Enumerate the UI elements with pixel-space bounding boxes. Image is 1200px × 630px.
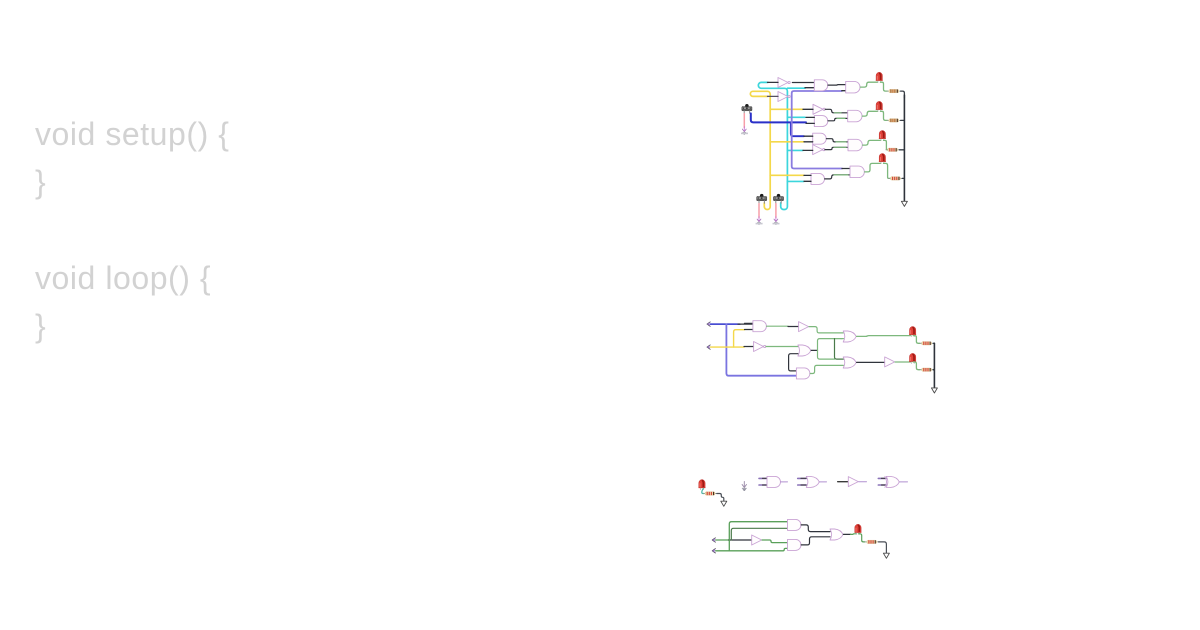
LED D8 bottom <box>854 524 861 534</box>
wire yellow branch to row4 AND upper input <box>770 174 804 176</box>
wire AND row3 input stubs <box>804 136 813 142</box>
pushbutton SW1 <box>742 104 752 113</box>
wire green NOT-B output to OR-D upper input <box>766 346 799 348</box>
AND gate A mid <box>753 321 767 332</box>
gnd arrow under SW2 <box>757 217 761 225</box>
wire AND row2 inputs stubs <box>806 117 814 123</box>
wire cyan branch to row1 AND lower input <box>787 87 805 89</box>
wire green BUF-D output to AND-T2 upper input <box>762 540 787 543</box>
resistor R5 mid <box>920 342 934 345</box>
wire R7 to ground <box>717 494 724 501</box>
wire AND-T1 output to OR-V upper input <box>801 525 830 532</box>
wire green BUF-C output to OR-F upper input <box>809 327 843 333</box>
code preview text <box>35 110 229 350</box>
OR gate D mid <box>798 345 811 356</box>
wire yellow branch up to AND-A lower input <box>734 330 745 347</box>
wire green IN3 to BUF-D input <box>716 539 730 541</box>
wire blue from button1 to row2 AND lower input <box>751 113 806 122</box>
LED D6 mid <box>909 353 916 363</box>
ground rail wire top block <box>903 95 905 201</box>
wire yellow branch to row3 AND lower input <box>770 141 804 143</box>
wire cyan branch to row2 AND top input <box>787 116 805 118</box>
wire AND-T2 output to OR-V lower input <box>801 537 830 545</box>
wire cyan branch to row3 NOT input <box>787 149 803 151</box>
ground symbol bottom block <box>883 553 889 558</box>
wire R3 to ground rail <box>899 149 904 151</box>
wire pink SW2 to gnd arrow <box>758 204 760 218</box>
OR gate F mid <box>843 331 856 342</box>
wire green branch IN4 up to AND-T1 upper input <box>729 522 787 551</box>
gnd arrow under SW3 <box>774 217 778 225</box>
wire dark green latch cross vertical <box>835 339 844 360</box>
wire green IN4 to AND-T2 lower input <box>716 548 788 550</box>
OR gate G mid <box>843 357 856 368</box>
wire NOT1 output to AND1 upper input <box>792 82 814 84</box>
wire green AND row3b output to LED3 <box>863 140 881 145</box>
wire green AND-E output up to OR-G lower input <box>810 365 843 373</box>
LED D7 standalone <box>698 480 705 490</box>
wire R1 to ground rail <box>901 91 905 98</box>
wire NOT row2 output to AND row2b upper input <box>825 109 848 113</box>
ground symbol bottom-left <box>721 501 727 506</box>
wire R2 to ground rail <box>901 119 905 121</box>
buffer gate D bottom <box>752 535 762 545</box>
pushbutton SW3 <box>773 194 783 203</box>
wire AND row3 output to AND row3b upper input <box>826 139 848 142</box>
wire green LED5 cathode to resistor R5 <box>913 336 920 344</box>
label under SW2 <box>756 223 763 225</box>
wire AND row4 output to AND row4b lower input <box>825 175 850 179</box>
pushbutton SW2 <box>757 194 767 203</box>
AND gate U5 row2 <box>814 116 828 127</box>
wire AND row2 output to AND row2b lower input <box>828 118 848 120</box>
wire NOT row3 input stub <box>803 149 813 151</box>
wire green branch IN3 up to AND-T1 lower input <box>731 528 787 540</box>
AND gate U9 row3 <box>848 139 862 151</box>
LED D2 <box>876 101 883 111</box>
NOT gate B mid <box>754 342 766 352</box>
resistor R1 220ohm <box>887 89 901 92</box>
resistor R4 220ohm <box>889 177 903 180</box>
resistor R8 bottom <box>865 540 879 543</box>
wire OR-G output to BUF-H input <box>857 361 885 363</box>
wire mid ground rail <box>933 343 934 387</box>
resistor R6 mid <box>920 368 934 371</box>
OR gate V bottom <box>830 529 843 540</box>
wire AND row4b upper input stub <box>842 168 850 170</box>
AND gate E mid <box>796 368 810 379</box>
wire green OR-F output to LED5 anode <box>857 335 911 338</box>
AND gate U2 row1 <box>814 80 828 91</box>
wire yellow loop from button2 up to NOT2 input <box>750 91 770 209</box>
AND gate U11 row4 <box>850 166 864 178</box>
wire NOT row2 input stub <box>803 108 813 110</box>
AND gate U7 row3 <box>813 133 827 144</box>
input pin IN2 mid <box>707 345 711 349</box>
resistor R2 220ohm <box>887 119 901 122</box>
wire cyan branch to row4 AND lower input <box>787 180 804 182</box>
NOT gate U1b row1b <box>778 92 790 102</box>
gnd arrow standalone <box>742 482 746 491</box>
wire pink SW1 to gnd arrow <box>743 114 745 128</box>
wire AND row4 input stubs <box>804 175 811 181</box>
LED D5 mid <box>909 327 916 337</box>
wire green AND2 output to LED1 anode <box>860 82 877 87</box>
wire green LED4 cathode to resistor R4 <box>884 163 891 178</box>
XOR gate standalone <box>878 478 886 485</box>
wire OR-V output to LED8 anode <box>843 533 850 535</box>
wire blue branch down to row3 AND upper input <box>791 122 804 136</box>
wire AND2 lower input stub <box>842 90 846 92</box>
wire green LED1 cathode to resistor R1 <box>880 82 887 91</box>
LED D1 <box>876 72 883 82</box>
buffer gate standalone <box>838 481 849 483</box>
wire green LED8 cathode to resistor R8 <box>858 534 865 542</box>
OR gate standalone <box>798 478 807 485</box>
wire green AND-A output to BUF-C input <box>767 325 788 327</box>
input pin IN1 mid <box>707 322 711 326</box>
LED D3 <box>879 131 886 141</box>
LED D4 <box>879 154 886 164</box>
NOT gate U8 row3 <box>813 145 825 155</box>
wire green LED3 cathode to resistor R3 <box>884 140 890 149</box>
wire black L from OR-D lower input to AND-E upper input <box>789 354 798 371</box>
AND gate U10 row4 <box>811 173 825 184</box>
resistor R3 220ohm <box>886 148 900 151</box>
wire green LED2 cathode to resistor R2 <box>880 111 887 120</box>
AND gate standalone <box>759 478 767 485</box>
NOT gate U1 row1 <box>778 78 790 88</box>
ground symbol top block <box>901 201 907 206</box>
wire AND1 lower input stub <box>805 87 814 89</box>
wire green BUF-H output to LED6 anode <box>895 361 910 363</box>
wire OR-F lower input stub <box>841 338 843 340</box>
wire NOT2 input stub <box>768 95 779 97</box>
label under SW3 <box>773 223 780 225</box>
wire violet from NOT2 output to row1 AND2 lower input <box>792 91 842 169</box>
wire NOT1 input stub <box>768 81 779 83</box>
wire blue IN1 to AND-A upper input <box>711 323 741 325</box>
wire AND-A input stubs <box>745 323 753 329</box>
input pin IN4 bottom <box>712 549 716 553</box>
buffer gate H mid <box>885 357 895 367</box>
wire green LED6 cathode to resistor R6 <box>913 362 920 370</box>
wire NOT-B input stub <box>744 346 754 348</box>
input pin IN3 bottom <box>712 538 716 542</box>
wire R8 to ground bottom <box>879 542 887 553</box>
wire pink SW3 to gnd arrow <box>775 204 777 218</box>
wire R4 to ground rail <box>902 177 904 179</box>
wire green latch vertical <box>818 339 842 351</box>
label under SW1 <box>741 133 748 135</box>
wire OR-D output to latch node <box>811 349 817 351</box>
wire blue-violet branch down to AND-E lower input <box>726 324 796 376</box>
AND gate T2 bottom <box>788 539 802 550</box>
buffer gate C mid <box>799 322 809 332</box>
NOT gate U4 row2 <box>813 104 825 114</box>
AND gate U6 row2 <box>848 110 862 122</box>
wire green AND row2b output to LED2 <box>862 111 877 116</box>
AND gate T1 bottom <box>788 519 802 530</box>
wire NOT row3 output to AND row3b lower input <box>825 147 848 149</box>
wire violet stub at NOT2 output <box>791 93 793 97</box>
resistor R7 <box>703 492 717 495</box>
wire R5 to mid ground rail <box>933 342 934 344</box>
wire yellow IN2 to NOT-B input <box>711 346 745 348</box>
wire AND1 output to AND2 upper input <box>828 84 846 87</box>
wire teal LED7 cathode to resistor R7 <box>702 489 704 494</box>
ground symbol mid block <box>931 388 937 393</box>
wire green AND row4b output to LED4 <box>865 163 881 172</box>
AND gate U3 row1 <box>846 81 860 93</box>
wire cyan loop from button3 up to NOT1 input <box>758 82 787 209</box>
gnd arrow under SW1 <box>742 127 746 135</box>
wire yellow branch to row2 buffer input <box>770 108 803 110</box>
